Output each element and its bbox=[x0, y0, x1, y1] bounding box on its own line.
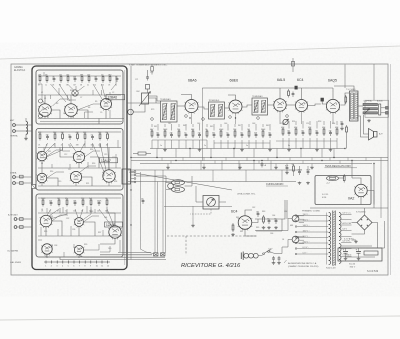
wire gang to T1 bbox=[149, 96, 161, 101]
IF box lower wire bbox=[38, 167, 121, 169]
AF box top bus wire bbox=[38, 197, 121, 199]
plug wiring bbox=[136, 176, 166, 183]
RF box top bus wire bbox=[38, 75, 121, 77]
band link wires bbox=[152, 139, 207, 141]
headphone jack contact 2 bbox=[363, 108, 378, 110]
IF tube V5 bbox=[37, 173, 47, 183]
RC row wires bbox=[255, 218, 280, 220]
headphone jack outline bbox=[365, 100, 389, 117]
dial cord diagonal bbox=[129, 172, 232, 190]
paper bottom edge line bbox=[0, 316, 400, 320]
power switch S2 bbox=[292, 236, 299, 243]
wire output transformer top to B+ bbox=[334, 86, 354, 91]
coupling cap C1 bbox=[147, 75, 149, 77]
transformer core bbox=[332, 211, 334, 266]
chassis box outline bbox=[32, 66, 127, 270]
plate wire 6BE6 to T3 bbox=[242, 105, 252, 107]
AF diagonal fan wires bbox=[47, 209, 51, 215]
wire jack down bbox=[364, 115, 369, 134]
tube bottom drops bbox=[279, 111, 281, 124]
label 12AU7 bbox=[100, 158, 118, 163]
paper area above fold bbox=[0, 0, 400, 59]
bus drop wires bbox=[156, 149, 158, 158]
schematic sheet tint bbox=[11, 64, 388, 275]
gang wiring bbox=[147, 70, 149, 75]
regulator box bbox=[315, 176, 371, 205]
grounds under supply bus bbox=[167, 164, 169, 167]
AF tube V9 bbox=[42, 244, 52, 254]
cathode resistor 6AQ5 bbox=[345, 95, 347, 97]
long wire y170 bbox=[128, 169, 302, 171]
jack terminals bbox=[386, 107, 389, 110]
wire transformer to jack bbox=[358, 105, 363, 107]
AF tube V10 bbox=[74, 245, 83, 254]
top frame trimmer bbox=[292, 58, 294, 72]
IF section sub-box bbox=[36, 129, 123, 191]
junction cap on top bus bbox=[295, 86, 298, 89]
chassis box inner edge line bbox=[124, 70, 126, 265]
padder trimmer bbox=[146, 85, 150, 90]
tube 6C4 power bbox=[238, 216, 252, 230]
tube 6AQ5 bbox=[326, 99, 339, 112]
top trimmer chain bbox=[151, 67, 154, 72]
supply bus wire 2 bbox=[131, 160, 388, 162]
cord wire to switch bbox=[258, 255, 262, 257]
filter block outline bbox=[338, 248, 382, 261]
RF box trimmer 2 bbox=[39, 114, 43, 118]
heater run wires bbox=[352, 239, 357, 241]
RF trimmer X bbox=[72, 90, 78, 96]
RF trimmer bbox=[39, 99, 43, 103]
junction dots on buses bbox=[156, 157, 157, 158]
power switch S1 bbox=[292, 215, 299, 222]
tube 6C4 detector bbox=[296, 100, 308, 112]
IF tube V4 bbox=[73, 151, 84, 162]
volume potentiometer bbox=[283, 119, 288, 124]
wire speaker return bbox=[358, 116, 369, 137]
AF box wiring texture bbox=[46, 208, 48, 213]
wire antenna to chassis bbox=[24, 124, 32, 126]
tube top connection wires bbox=[181, 95, 192, 100]
mains switch contacts bbox=[263, 253, 265, 255]
IF tube V3 bbox=[37, 151, 47, 161]
filter choke resistor bbox=[364, 251, 378, 255]
IF box bottom wire bbox=[38, 185, 121, 187]
tube 12AU7 bbox=[103, 170, 115, 182]
IF wiring mesh bbox=[41, 161, 43, 173]
drops bus to y170 bbox=[200, 161, 202, 171]
jack switch arrow bbox=[365, 109, 370, 114]
right feeder verticals bbox=[384, 221, 386, 248]
left lead resistors bbox=[20, 175, 24, 178]
jack ground bbox=[368, 119, 370, 120]
lamp ground bbox=[192, 224, 194, 225]
IF box mid bus wire bbox=[38, 147, 121, 149]
bottom feeder verticals bbox=[139, 172, 141, 249]
bridge wiring bbox=[352, 222, 358, 224]
AF box mid bus wire bbox=[38, 212, 121, 214]
series resistor bbox=[343, 174, 345, 176]
tube 6BA6 bbox=[185, 100, 198, 113]
supply bus wire 3 bbox=[140, 163, 372, 165]
RF wiring mesh bbox=[44, 95, 46, 104]
meter bottom wire extension bbox=[164, 205, 232, 207]
filter wiring bbox=[338, 247, 382, 249]
regulator bottom wire bbox=[310, 207, 388, 209]
outer border right double line bbox=[390, 64, 392, 275]
phone plug P2 bbox=[172, 187, 185, 193]
RF tube V1 bbox=[39, 104, 52, 117]
IF box wiring texture bbox=[43, 148, 45, 153]
fuse holder oval bbox=[327, 176, 339, 181]
RF section sub-box bbox=[36, 70, 123, 124]
coupling cap 6C4-6AQ5 bbox=[321, 98, 324, 101]
supply bus wire 1 bbox=[131, 157, 388, 159]
mains cord loops bbox=[244, 253, 249, 258]
grid wire T2 to 6BE6 bbox=[225, 107, 230, 109]
cuffia micro connector bbox=[122, 169, 131, 184]
aux terminal C1 bbox=[14, 218, 17, 221]
label 12AB5 bbox=[105, 222, 123, 227]
IF tube V6 bbox=[70, 171, 81, 182]
vertical feeder x374 top bbox=[373, 64, 375, 100]
wire bridge to filter bbox=[377, 246, 379, 248]
vertical feeder wire x131 bbox=[130, 66, 132, 260]
regulator wiring bbox=[352, 178, 361, 184]
long wire y181.5 bbox=[128, 181, 296, 183]
phone plug P1 bbox=[172, 180, 185, 186]
RF diagonal fan wires bbox=[51, 84, 67, 102]
RF tube V2 bbox=[65, 104, 78, 117]
grid wire T1 to 6BA6 bbox=[177, 105, 185, 107]
switch fan wires bbox=[299, 215, 304, 217]
meter wires bbox=[196, 186, 203, 202]
AF section sub-box bbox=[36, 194, 123, 257]
aux terminal C2 bbox=[14, 226, 17, 229]
headphone jack contact 1 bbox=[363, 103, 378, 105]
transformer secondary winding HV bbox=[339, 213, 341, 217]
paper top edge fold line bbox=[0, 46, 400, 59]
label 12BA6 bbox=[106, 95, 125, 100]
antenna terminal A1 bbox=[13, 124, 16, 127]
plug tip circle bbox=[168, 183, 174, 189]
bottom connector lug 1 bbox=[154, 253, 159, 256]
ground symbols under strip bbox=[164, 149, 166, 150]
jack frame bar bbox=[379, 104, 381, 115]
tube 12BA6 bbox=[101, 99, 112, 110]
IF strip component drops bbox=[151, 140, 153, 149]
feed-through capacitor bbox=[32, 185, 36, 189]
6C4 stage wiring bbox=[245, 210, 252, 216]
wire 6AL5 to 6C4 bbox=[286, 104, 295, 106]
bus inter-connect drops bbox=[161, 158, 163, 161]
RF box lower wire 2 bbox=[40, 121, 122, 123]
vertical feeder x345 bbox=[344, 65, 346, 89]
oscillator plug bbox=[128, 109, 134, 115]
dashed link line bbox=[190, 209, 211, 214]
tuning meter bbox=[207, 198, 216, 207]
AF tube V8 bbox=[75, 218, 84, 227]
tube 0A2 bbox=[355, 184, 367, 196]
IF transformer T2 bbox=[209, 102, 225, 119]
transformer secondary winding LV bbox=[339, 244, 341, 248]
headphone jack contact 3 bbox=[363, 112, 378, 114]
dashed boundary vertical bbox=[185, 236, 187, 255]
antenna coil L1 bbox=[26, 122, 28, 125]
drops y170 to y181.5 bbox=[212, 170, 214, 182]
IF transformer T3 bbox=[252, 98, 268, 115]
line filter caps bbox=[273, 256, 275, 258]
6C4 grid components bbox=[232, 223, 234, 225]
IF diagonal fan wires bbox=[44, 143, 48, 151]
line input terminal B2 bbox=[13, 182, 16, 185]
detector grounds bbox=[288, 149, 290, 150]
speaker bbox=[374, 132, 378, 138]
tube 6AL5 bbox=[274, 99, 286, 111]
plate wire 6BA6 to T2 bbox=[198, 107, 209, 109]
junction cap A bbox=[261, 160, 263, 162]
bottom connector lug 2 bbox=[161, 253, 166, 256]
AF wiring mesh bbox=[45, 227, 47, 236]
tube 12AB5 bbox=[109, 226, 121, 238]
meter box bbox=[203, 196, 219, 210]
horizontal resistor on bus bbox=[138, 152, 146, 155]
AVC bus wire bbox=[150, 148, 345, 150]
mains plug bbox=[240, 253, 242, 260]
junction rings on wires bbox=[185, 115, 188, 118]
transformer primary winding bbox=[329, 213, 331, 217]
IF transformer T1 bbox=[161, 101, 178, 122]
tube 6BE6 bbox=[229, 100, 242, 113]
RF box lower wire bbox=[38, 118, 124, 120]
rectifier bridge bbox=[357, 215, 372, 230]
output transformer bbox=[350, 91, 359, 121]
components between 6AL5 and 6C4 bbox=[288, 89, 290, 91]
RF box wiring texture bbox=[43, 72, 45, 76]
tuning gang capacitor bbox=[142, 93, 149, 104]
line input terminal B1 bbox=[13, 176, 16, 179]
AF box lower wire bbox=[38, 235, 121, 237]
wire T3 to 6AL5 bbox=[268, 104, 274, 106]
antenna terminal A2 bbox=[13, 130, 16, 133]
anode bus drop x202 bbox=[201, 88, 203, 161]
filter cap C50a bbox=[345, 248, 347, 251]
IF box top bus wire bbox=[38, 131, 121, 133]
AF tube V7 bbox=[40, 215, 52, 227]
wire 6AQ5 plate to output transformer bbox=[340, 93, 349, 105]
bottom bus wires leaving chassis bbox=[60, 257, 166, 260]
chassis bottom connector strip bbox=[44, 261, 110, 263]
dashed boundary horizontal bbox=[167, 235, 257, 237]
filter cap C50b bbox=[358, 248, 360, 251]
filter grounds bbox=[345, 257, 347, 258]
transformer secondary taps bbox=[341, 214, 352, 216]
RF box mid bus wire bbox=[38, 94, 121, 96]
anode top bus wire bbox=[202, 87, 333, 89]
wire 6C4 to 6AQ5 bbox=[308, 104, 321, 106]
outer border frame bbox=[11, 64, 388, 275]
